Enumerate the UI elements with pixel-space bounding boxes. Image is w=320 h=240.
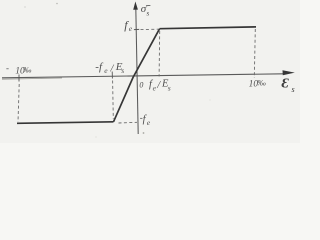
svg-text:Ɛ: Ɛ <box>282 77 290 92</box>
dashed vertical at 10 permille <box>254 29 255 78</box>
tick f_e on sigma axis <box>134 28 139 30</box>
wire: fuzzy doubling of eps axis at left (scan artifact) <box>2 78 62 79</box>
dashed vertical at f_e/E_s <box>158 31 161 77</box>
dashed vertical at -10 permille <box>18 84 19 122</box>
curve: upper plateau <box>160 27 256 29</box>
tick -10 permille on eps axis <box>18 75 20 82</box>
svg-text:‰: ‰ <box>257 78 266 88</box>
svg-text:s: s <box>168 84 171 93</box>
axis epsilon_s (horizontal) <box>2 74 284 78</box>
tick -f_e/E_s on eps axis <box>111 72 113 79</box>
arrowhead sigma axis <box>133 2 138 10</box>
dashed vertical at -f_e/E_s <box>112 81 115 120</box>
curve: elastic branch <box>114 29 160 122</box>
axis sigma_s (vertical) <box>136 8 138 134</box>
scan speckles <box>56 3 58 5</box>
svg-text:s: s <box>146 8 149 17</box>
arrowhead epsilon axis <box>283 70 295 75</box>
svg-text:s: s <box>121 66 124 75</box>
dashed leader f_e to yield corner <box>141 28 159 30</box>
svg-text:0: 0 <box>139 81 143 90</box>
svg-text:‰: ‰ <box>23 65 32 75</box>
svg-text:-: - <box>6 63 9 73</box>
svg-text:s: s <box>292 85 295 94</box>
dashed leader lower plateau to -f_e <box>119 121 138 124</box>
curve: lower plateau <box>17 122 114 124</box>
